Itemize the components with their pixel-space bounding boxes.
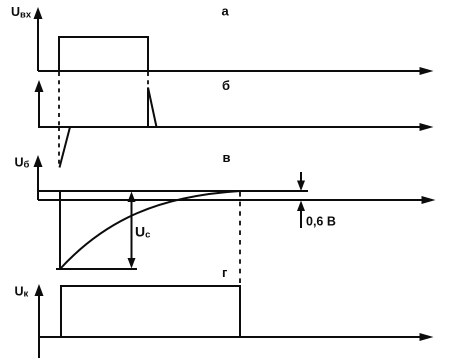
svg-text:в: в — [223, 150, 231, 165]
panel g output pulse waveform — [61, 286, 240, 337]
panel b horizontal axis — [38, 126, 421, 128]
panel a vertical axis arrowhead — [34, 7, 43, 19]
dashed line at trailing edge x=148 — [147, 72, 149, 87]
dashed line at curve end x=240 down to panel g pulse — [239, 192, 241, 285]
label Uk (panel g axis label) — [15, 284, 29, 299]
panel v exponential charging curve — [60, 191, 240, 269]
panel v vertical axis arrowhead — [34, 155, 43, 167]
panel g horizontal axis — [38, 336, 421, 338]
panel v 0.6V level line — [38, 190, 308, 192]
svg-text:г: г — [222, 265, 228, 280]
panel label g — [222, 265, 228, 280]
panel b vertical axis arrowhead — [35, 80, 44, 92]
svg-text:Uс: Uс — [135, 224, 150, 241]
svg-text:б: б — [222, 78, 230, 93]
Uc measurement double arrow — [131, 199, 133, 261]
panel v vertical axis — [37, 164, 39, 200]
label 0,6 V — [306, 215, 336, 229]
panel b negative spike dashed left edge — [58, 127, 60, 168]
label Ub (panel v axis label) — [15, 155, 30, 170]
panel v horizontal axis (zero line) — [38, 199, 423, 201]
svg-text:Uвх: Uвх — [11, 5, 32, 20]
panel v horizontal axis arrowhead — [422, 196, 436, 204]
panel b positive spike — [148, 88, 157, 128]
panel v bottom level line — [56, 268, 137, 270]
panel label b — [222, 78, 230, 93]
panel label a — [222, 4, 230, 19]
panel g horizontal axis arrowhead — [420, 333, 434, 341]
panel a input pulse waveform — [59, 37, 148, 71]
panel a horizontal axis — [38, 70, 421, 72]
panel label v — [223, 150, 231, 165]
svg-text:Uк: Uк — [15, 284, 29, 299]
svg-text:0,6 В: 0,6 В — [306, 215, 336, 229]
panel b horizontal axis arrowhead — [420, 123, 434, 131]
panel b vertical axis — [38, 89, 40, 127]
panel a horizontal axis arrowhead — [420, 67, 434, 75]
label Uc — [135, 224, 150, 241]
0.6V lower pointer arrow (pointing up) — [300, 209, 302, 228]
label Uvx (panel a axis label) — [11, 5, 32, 20]
dashed line at leading edge x=59 — [58, 72, 60, 127]
panel a vertical axis — [37, 16, 39, 71]
panel g vertical axis (extends below horizontal axis) — [38, 293, 40, 358]
panel g vertical axis arrowhead — [35, 284, 44, 296]
0.6V upper pointer arrow (pointing down) — [300, 172, 302, 183]
panel b negative spike slanted return edge — [60, 127, 71, 168]
panel v pulse falling edge at x=60 — [59, 191, 61, 269]
svg-text:Uб: Uб — [15, 155, 30, 170]
svg-text:а: а — [222, 4, 230, 19]
